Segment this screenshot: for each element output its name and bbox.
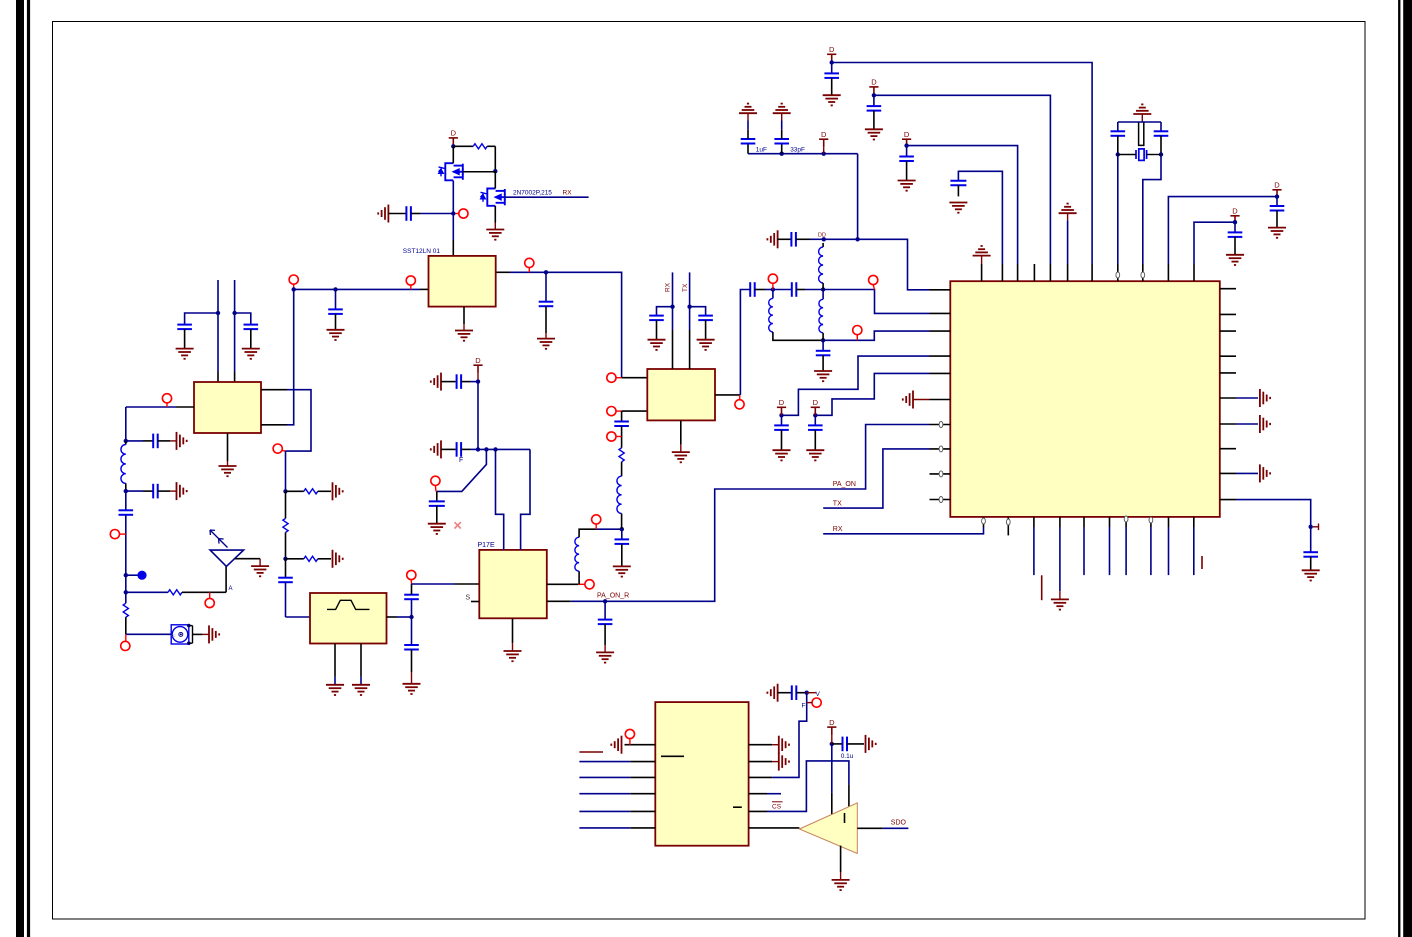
port stub [772,283,774,289]
pin U1 bottom8 [1150,517,1152,527]
ground C34 [431,373,441,391]
wire filter left pin [286,616,311,618]
wire balun pin1 up [217,280,219,372]
lead [772,761,779,763]
capacitor C29 [1154,131,1169,136]
ground C23 [865,129,883,139]
lead cap C8 [411,599,413,617]
ground DD cap [767,230,777,248]
pin U1 bottom5 [1083,517,1085,527]
pin U1 top3 [1017,264,1019,281]
lead cap C26 [1276,197,1278,206]
wire junction [409,615,413,619]
lead D10 [831,735,833,744]
antenna feed wire [225,566,227,592]
ground R3 [333,550,343,568]
svg-text:33pF: 33pF [790,147,805,154]
wire to SST12 [452,214,454,241]
wire Q2 gate RX [505,196,589,198]
pin U1 top1 [981,264,983,281]
wire junction [493,169,497,173]
ground IC right [1260,389,1270,407]
wire junction [124,590,128,594]
lead [604,645,606,652]
wire junction [805,691,809,695]
wire D3 to IC [907,146,1018,264]
wire [805,289,823,291]
wire junction [821,287,825,291]
pin number XTAL2 [1141,272,1145,278]
wire D5 to IC [1194,222,1235,264]
ground U4 [672,452,690,462]
ground up C20 [739,104,757,114]
wire U1 bottom stub [1083,527,1085,575]
pin U1 right4 [1220,355,1236,357]
pin U4 ant [715,394,740,396]
pin U1 left7 [930,424,951,426]
ground SST12 [455,331,473,341]
pin U6 r5 CS [749,810,767,812]
capacitor C19 [791,232,796,247]
wire U6 left [579,761,630,763]
wire IC l5 to D cap [815,373,929,415]
port stub [434,485,437,491]
lead R2 [125,617,127,634]
wire to junction [596,528,622,530]
capacitor C32 [1303,552,1318,557]
pin U1 bottom3 [1033,517,1035,527]
pin U1 left1 [930,289,951,291]
pin number b8 [1149,517,1153,523]
lead resistor R7 [285,491,287,518]
ground filter 2 [352,685,370,695]
pin U1 right10 [1220,499,1236,501]
wire junction [124,439,128,443]
pin U6 l1 [625,744,656,746]
wire [420,213,453,215]
port stub [739,395,741,400]
buffer inner mark [844,813,846,823]
lead C20 [747,144,749,154]
lead C1 [184,329,186,349]
pin buffer gnd [840,846,842,872]
port P17E out [585,580,594,589]
SMA shield bar [192,626,194,644]
svg-text:DD: DD [818,233,826,239]
ground antenna [251,566,269,576]
wire CS to buffer [767,761,849,812]
ground VF cap [767,684,777,702]
page border thin bar right [1398,0,1400,937]
svg-text:RX: RX [665,282,672,292]
port stub [456,213,459,215]
lead [170,440,177,442]
capacitor C26 [1270,206,1285,211]
lead [494,223,496,230]
lead C32 [1310,557,1312,571]
pin U6 r6 to buffer [749,827,800,829]
lead cap C18 [822,340,824,351]
lead C35 [461,448,470,450]
wire to ground [1236,423,1258,425]
ground C27 [1226,255,1244,265]
resistor R7 series [283,518,288,532]
ground C24 [898,181,916,191]
wire D2 to IC [874,95,1051,264]
wire left column [125,575,127,592]
port SST12 out [525,258,534,267]
lead C12 [621,426,623,448]
power D rail tap [819,139,828,147]
wire crystal top [1118,121,1161,123]
inductor L5 [819,247,824,283]
svg-text:RX: RX [563,189,573,196]
wire filter out [397,616,412,618]
port stub maroon [807,702,812,704]
wire balun left pin [126,406,176,408]
wire junction [771,287,775,291]
pin U4 TX [689,330,691,369]
ground C10 [596,652,614,662]
port stub [856,335,858,341]
lead cap C30 [781,415,783,425]
lead cap C10 [604,601,606,619]
SMA shield pins [187,624,191,628]
power D2 [869,87,878,95]
lead [1141,114,1143,122]
lead cap C29 [1160,122,1162,131]
lead L6 bottom [822,333,824,340]
wire U1 bottom gnd [1059,527,1061,591]
wire SST12 to U4 [510,272,622,377]
pin U1 top9 [1142,264,1144,281]
lead cap C24 [906,146,908,157]
port stub [125,634,127,641]
svg-text:TX: TX [833,501,842,508]
lead C25 [957,185,959,196]
wire junction [904,143,908,147]
pin balun top2 [234,372,236,383]
port stub [120,533,126,535]
pin U1 left3 [930,330,951,332]
lead cap C27 [1234,222,1236,232]
lead [680,445,682,452]
pin U6 left [630,827,655,829]
port antenna feed [205,598,214,607]
lead C14 [656,320,658,340]
capacitor C15 [698,316,713,321]
SMA shield stub2 [189,642,193,644]
SMA connector J1 [171,625,189,644]
port stub [282,449,286,452]
SMA shield stub1 [189,625,193,627]
pin U6 right [749,761,773,763]
port stub [616,436,622,438]
lead C4 [158,440,170,442]
pin balun left [176,406,194,408]
svg-text:D: D [813,398,819,407]
port stub [578,583,585,585]
lead C23 [873,111,875,130]
wire cap rail [748,153,858,155]
capacitor C13 [615,539,630,544]
lead C16 [755,289,765,291]
ground C4 [177,432,187,450]
wire filter input column [285,451,287,491]
capacitor C18 [816,351,831,356]
capacitor C7 series [278,578,293,583]
wire to cap C5 [126,490,143,492]
port RF to IC [869,275,878,284]
SMA center pin [179,632,183,636]
port RF node [768,274,777,283]
wire balun pin2 up [234,280,236,372]
lead C9 [411,650,413,673]
svg-text:D: D [451,129,457,138]
pin U1 top6 [1067,264,1069,281]
pin U1 bottom1 [983,517,985,527]
capacitor C3 [328,309,343,314]
port below C12 [607,432,616,441]
capacitor C31 [808,425,823,430]
ground P17E [504,651,522,661]
wire into filter [285,582,287,617]
lead [202,633,209,635]
capacitor C30 [774,425,789,430]
pin U1 bottom7 [1125,517,1127,527]
lead [334,677,336,685]
lead C21 [781,144,783,154]
port stub [410,580,412,584]
wire junction [855,237,859,241]
pin U4 gnd [680,420,682,444]
wire RX [823,527,983,534]
port balun-SST12 net [289,275,298,284]
ground C5 [177,482,187,500]
power D9 [473,365,482,373]
lead C26 [1276,211,1278,228]
lead [747,113,749,120]
pin SST12 gnd [463,307,465,325]
net tick [1313,524,1319,531]
pin number TX [939,446,943,452]
lead cap C36 [436,491,438,501]
port RF2 [853,326,862,335]
crystal case ground pins [1139,123,1144,146]
svg-text:D: D [904,130,910,139]
svg-text:RX: RX [833,526,843,533]
wire to series cap C6 [125,491,127,510]
port U4 in2 [607,407,616,416]
wire to SMA [126,633,171,635]
wire U6 r3 to VF cap [772,693,806,778]
lead C5 left [143,490,153,492]
port filter out [407,570,416,579]
pin U1 right8 [1220,448,1236,450]
lead C33 [411,213,420,215]
capacitor C9 [404,645,419,650]
wire junction [493,447,497,451]
pin U6 left [630,761,655,763]
wire [470,381,478,383]
lead to cap C7 [285,559,287,578]
wire junction [476,447,480,451]
lead cap C11 [545,272,547,301]
pin P17E S [471,601,479,603]
inductor L4 [769,298,773,332]
port bottom left [121,641,130,650]
port left column [110,530,119,539]
wire DD rail down [857,154,859,240]
lead C17 [796,289,805,291]
pin U1 right2 [1220,313,1236,315]
pin number b1 [982,518,986,524]
wire U1 bottom stub [1125,527,1127,575]
lead cap C12 [621,411,623,421]
pin SST12 left [420,288,429,290]
wire Q1 drain [452,146,454,163]
pin number b2 [1006,519,1010,525]
wire junction [603,599,607,603]
wire U4 to RF chain [740,290,750,395]
wire DD to IC [824,239,930,289]
port stub [528,268,530,273]
ground C9 [403,684,421,694]
ground C26 [1268,228,1286,238]
svg-text:SDO: SDO [891,820,907,827]
lead [1059,591,1061,599]
ground R6 [333,482,343,500]
lead C24 [906,161,908,181]
svg-text:D: D [821,130,827,139]
wire U1 bottom stub [1193,527,1195,575]
page border thin bar left [27,0,30,937]
port C36 [431,476,440,485]
wire junction [1275,194,1279,198]
wire balun right2 up [287,289,294,424]
lead C34 [461,381,470,383]
page border thick bar left [16,0,24,937]
net tick b [1041,575,1043,600]
pin U1 top10 [1167,264,1169,281]
wire junction [1116,152,1120,156]
lead C38 [832,743,842,745]
ground IC right [1260,464,1270,482]
wire to cap C2 [235,313,251,325]
wire junction [813,413,817,417]
wire [765,289,773,291]
pin U4 in2 [622,410,648,412]
pin U1 top4 [1033,264,1035,281]
pin U1 top11 [1193,264,1195,281]
pin U4 in1 [622,377,648,379]
wire U1 bottom stub [1109,527,1111,575]
capacitor C27 [1228,232,1243,237]
PA U3 P17E [479,550,547,618]
lead C15 [705,320,707,340]
ground C22 [823,95,841,105]
wire [747,121,749,130]
wire up [411,584,413,595]
wire U6 left [579,776,630,778]
capacitor C24 [899,157,914,162]
lead L1 bottom [125,483,127,491]
pin number l9 [939,471,943,477]
power D1 [827,54,836,62]
pin balun right2 [261,424,287,426]
port U6 l1 [625,729,634,738]
ground U6 l1 [611,736,621,754]
lead [781,113,783,120]
power D10 [827,727,836,735]
wire to crystal [1118,154,1136,156]
ground Q2 [486,230,504,240]
pin U1 right7 [1220,423,1236,425]
pin U1 bottom9 [1168,517,1170,527]
ground C31 [806,450,824,460]
wire TX [823,449,929,508]
svg-text:D: D [871,78,877,87]
svg-text:D: D [1232,207,1238,216]
lead C36 [436,506,438,524]
svg-text:2N7002P,215: 2N7002P,215 [513,189,552,196]
capacitor C21 33pF [774,139,789,144]
port Q1 source [459,209,468,218]
wire P17E vdd2 [521,449,530,550]
page border thick bar right [1403,0,1412,937]
capacitor C1 [177,325,192,330]
power D7 [811,407,820,415]
wire XTAL2 to IC [1143,155,1161,265]
floating net stub [579,751,603,753]
U6 inner mark 2 [733,806,742,808]
port L2 net [592,515,601,524]
wire junction [779,413,783,417]
pin U4 RX [672,330,674,369]
ground SMA [209,625,219,643]
capacitor C34 [457,374,462,389]
power D6 [777,407,786,415]
ground C14 [648,340,666,350]
buffer U7 triangle [799,803,857,854]
wire to P17E [412,583,455,585]
wire junction [1309,525,1313,529]
lead L5 [822,243,824,247]
wire junction [830,60,834,64]
port stub [166,403,168,407]
svg-text:0.1u: 0.1u [841,753,854,760]
lead C10 [604,624,606,645]
inductor L1 [121,445,126,484]
wire from crystal [1147,154,1161,156]
lead buffer en2 [848,785,850,807]
wire junction [451,144,455,148]
pin U1 left10 [930,499,951,501]
lead L5 bottom [822,283,824,290]
net stub V [807,692,816,694]
resistor R2 [123,603,128,617]
net tick r [1201,556,1203,569]
wire IC t2 to cap C25 [958,171,1002,264]
ground IC l6 [903,391,913,409]
wire D9 down [477,382,479,450]
svg-text:SST12LN 01: SST12LN 01 [403,248,441,255]
wire RF to IC pin [823,290,929,314]
pin U6 r4 [749,793,767,795]
ground C36 [428,524,446,534]
wire junction [484,447,488,451]
antenna arrow [210,530,228,548]
